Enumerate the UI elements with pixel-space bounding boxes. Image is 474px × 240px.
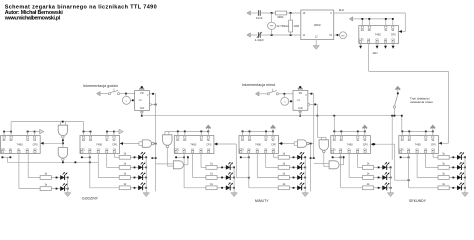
wire bridge (152, 157, 155, 159)
LED (seconds tens bit 2) (378, 162, 390, 170)
svg-text:7490: 7490 (375, 32, 381, 36)
svg-text:-TR: -TR (296, 100, 300, 102)
junction (155, 143, 157, 145)
junction (233, 187, 235, 189)
junction CP1 (400, 156, 402, 158)
wire Q0 down (89, 154, 91, 188)
wire bus down seconds (391, 116, 393, 160)
resistor (seconds units bit 3) (438, 151, 449, 159)
wire to resistor (349, 177, 362, 179)
wire resistor to LED (449, 177, 457, 179)
wire LED to common (143, 166, 146, 168)
wire pin R2 (368, 19, 370, 26)
stub (425, 131, 427, 136)
wire 1Hz down right side (447, 71, 449, 143)
wire (278, 93, 293, 95)
junction (106, 131, 108, 133)
junction (299, 115, 301, 117)
wire AND out (184, 164, 188, 166)
IC U3 hours tens 7490 counter (1, 136, 41, 154)
wire carry to Q0 vert (395, 179, 409, 181)
wire Q1 down (348, 154, 350, 178)
IC U11 seconds tens 7490 counter (331, 136, 371, 154)
svg-text:CP1: CP1 (399, 149, 404, 151)
wire LED to common (143, 156, 146, 158)
junction Q0 (248, 156, 250, 158)
wire top bus B5 (334, 130, 365, 132)
junction (314, 104, 316, 106)
wire to resistor (193, 177, 206, 179)
junction (392, 18, 394, 20)
svg-text:Inkrementacja godzin: Inkrementacja godzin (83, 84, 118, 88)
stub (10, 132, 12, 136)
junction Q0 (340, 156, 342, 158)
wire carry down (394, 144, 396, 180)
wire pin S1 (385, 19, 387, 26)
wire to resistor (273, 156, 278, 158)
LED (minutes tens bit 1) (221, 172, 233, 180)
wire R1-R2 (84, 131, 91, 133)
wire CP1-Q0 link (2, 156, 10, 158)
svg-text:CP0: CP0 (112, 143, 117, 146)
junction (75, 161, 77, 163)
junction (145, 177, 147, 179)
svg-text:CP0: CP0 (33, 143, 38, 146)
divider reset bus (354, 18, 392, 20)
wire gate out down (166, 148, 168, 166)
junction (248, 177, 250, 179)
wire LED to common (302, 166, 305, 168)
IC U2 divider 7490 counter (359, 26, 399, 44)
resistor (minutes tens bit 0) (206, 182, 217, 190)
stub (113, 132, 115, 136)
junction (272, 131, 274, 133)
stub (27, 132, 29, 136)
mode switch lever (395, 94, 398, 105)
wire (65, 177, 67, 179)
stub (164, 131, 166, 134)
junction (464, 177, 466, 179)
wire down to U4 reset (83, 122, 85, 132)
wire resistor to LED (217, 177, 226, 179)
wire LED common down (145, 157, 147, 190)
debounce circle (hours) (122, 96, 130, 104)
junction (425, 131, 427, 133)
wire Q1 down (256, 154, 258, 178)
arrow (B1 set) (38, 129, 44, 134)
stub (200, 131, 202, 136)
junction (290, 100, 292, 102)
ground (4060) (313, 43, 319, 49)
stub (177, 131, 179, 136)
wire Q3 down (272, 154, 274, 158)
wire resistor to LED (289, 187, 297, 189)
stub (106, 132, 108, 136)
wire to resistor (266, 166, 279, 168)
wire gate in A (59, 122, 61, 126)
wire crystal bottom (271, 29, 273, 35)
resistor (minutes units bit 2) (278, 162, 289, 170)
debounce circle (minutes) (281, 97, 289, 105)
resistor (hours units bit 1) (119, 172, 130, 180)
IC U4 hours units 7490 counter (80, 136, 120, 154)
junction (299, 86, 301, 88)
resistor 10M (289, 20, 293, 32)
junction (304, 156, 306, 158)
wire circle to box (289, 100, 293, 102)
wire LED common down (390, 167, 392, 190)
wire resistor to LED (217, 166, 226, 168)
wire box clr down (141, 110, 143, 115)
svg-text:CP1: CP1 (175, 149, 180, 151)
switch S2 (minutes) (267, 89, 278, 95)
VCC (B3) (206, 125, 211, 132)
wire Q2 down (200, 154, 202, 168)
svg-text:CP1: CP1 (359, 39, 364, 41)
resistor (seconds units bit 0) (438, 182, 449, 190)
junction (333, 131, 335, 133)
LED (seconds tens bit 1) (378, 172, 390, 180)
wire reset bus B3 (165, 130, 208, 132)
junction (155, 104, 157, 106)
arrowhead B5 CP0 (371, 143, 374, 146)
junction (385, 18, 387, 20)
wire to test point (334, 34, 340, 36)
AND gate (seconds clock) (329, 161, 339, 169)
junction (141, 115, 143, 117)
junction (340, 131, 342, 133)
resistor (seconds units bit 2) (438, 162, 449, 170)
wire S1-S2 (28, 131, 35, 133)
wire Q0 down (340, 154, 342, 188)
wire (120, 93, 135, 95)
resistor (minutes tens bit 2) (206, 162, 217, 170)
wire Q2 down (106, 154, 108, 168)
svg-text:CP1: CP1 (239, 149, 244, 151)
VCC (B5) (362, 125, 367, 132)
pin arrow (384, 46, 387, 49)
wire LED to common (231, 187, 234, 189)
arrow (B2 set) (117, 129, 123, 134)
NAND U10a (seconds carry) (297, 140, 309, 147)
svg-text:-TR: -TR (138, 100, 142, 102)
wire gate out (154, 143, 156, 145)
svg-text:CP1: CP1 (331, 149, 336, 151)
resistor (seconds tens bit 0) (362, 182, 373, 190)
ground (hours box) (140, 110, 144, 113)
arrowhead B2 CP0 (120, 142, 123, 145)
wire (35, 131, 38, 133)
wire bridge (311, 157, 314, 159)
wire R1-R2 (4, 131, 11, 133)
svg-text:7490: 7490 (17, 142, 23, 146)
stub (321, 137, 323, 140)
svg-text:4-43pF: 4-43pF (255, 38, 264, 42)
stub (325, 137, 327, 140)
wire Q2 down (425, 154, 427, 168)
wire (261, 93, 268, 95)
resistor (hours tens bit 2) (40, 172, 51, 180)
junction (233, 177, 235, 179)
wire stub (392, 44, 394, 48)
stub (168, 131, 170, 134)
svg-text:2Hz: 2Hz (341, 35, 345, 37)
junction (390, 177, 392, 179)
junction (337, 34, 339, 36)
NAND U7c (hours carry) (142, 140, 154, 147)
svg-text:330k: 330k (277, 15, 284, 19)
wire Q3 down (432, 154, 434, 158)
ground (divider reset bus) (349, 17, 354, 21)
svg-text:ustawienia czasu: ustawienia czasu (410, 100, 433, 104)
wire stub (376, 44, 378, 48)
wire down to CP0 (404, 13, 406, 32)
wire resistor to LED (289, 156, 297, 158)
junction (464, 167, 466, 169)
resistor (minutes units bit 3) (278, 151, 289, 159)
wire to resistor (249, 187, 278, 189)
junction (333, 115, 335, 117)
svg-text:CP0: CP0 (271, 143, 276, 146)
junction (83, 131, 85, 133)
LED (minutes tens bit 2) (221, 162, 233, 170)
wire minutes inc down (313, 94, 315, 158)
LED (seconds units bit 1) (452, 172, 464, 180)
wire to resistor (98, 177, 119, 179)
wire gate in B (64, 122, 66, 126)
wire to AND input (314, 163, 329, 165)
wire B5 CP0 (370, 143, 394, 145)
stub (408, 131, 410, 136)
wire LED common down (233, 167, 235, 190)
wire carry down (235, 144, 237, 178)
wire in B (139, 144, 142, 146)
svg-text:MINUTY: MINUTY (255, 199, 269, 203)
wire Q1 down (416, 154, 418, 178)
stub (333, 131, 335, 136)
wire resistor to LED (449, 156, 457, 158)
resistor (hours units bit 0) (119, 182, 130, 190)
resistor (hours units bit 3) (119, 151, 130, 159)
wire Q2 down (357, 154, 359, 168)
junction (187, 156, 189, 158)
LED (minutes units bit 0) (293, 183, 305, 191)
svg-text:7490: 7490 (255, 142, 261, 146)
wire LED to common (231, 166, 234, 168)
wire CP1-Q0 link (401, 156, 409, 158)
stub (432, 131, 434, 136)
IC U6 minutes units 7490 counter (239, 136, 279, 154)
junction (90, 131, 92, 133)
junction (67, 188, 69, 190)
wire resistor to LED (449, 166, 457, 168)
wire split (293, 142, 295, 146)
wire circle to box (130, 99, 134, 101)
junction (145, 187, 147, 189)
junction (432, 131, 434, 133)
svg-text:7490: 7490 (415, 142, 421, 146)
junction (390, 167, 392, 169)
wire LED to common (302, 156, 305, 158)
svg-text:CP0: CP0 (206, 143, 211, 146)
junction (242, 131, 244, 133)
junction (364, 131, 366, 133)
junction (216, 143, 218, 145)
svg-text:CP0: CP0 (363, 143, 368, 146)
arrowhead CP0 (399, 30, 402, 33)
stub (207, 131, 209, 136)
stub (242, 131, 244, 136)
stub (357, 131, 359, 136)
IC U12 seconds units 7490 counter (399, 136, 439, 154)
svg-text:10nF: 10nF (256, 16, 263, 20)
junction (62, 161, 64, 163)
frame wire hours reset (11, 121, 83, 123)
wire B2 CP0 (120, 143, 139, 145)
junction (464, 156, 466, 158)
wire gate1 to gate2 (62, 139, 64, 148)
wire CP1-Q0 link (241, 156, 249, 158)
NAND U7a (hours reset) (58, 125, 67, 138)
wire to resistor (107, 166, 120, 168)
wire pin R1 (361, 19, 363, 26)
monostable U8 (hours) (135, 91, 152, 111)
ground (hours tens LEDs) (65, 191, 71, 197)
wire (252, 34, 257, 36)
stub (340, 131, 342, 136)
wire to AND input (167, 165, 173, 167)
LED (seconds tens bit 0) (378, 183, 390, 191)
arrowhead B1 CP0 (41, 142, 44, 145)
wire LED to common (462, 156, 465, 158)
svg-text:Inkrementacja minut: Inkrementacja minut (242, 83, 275, 87)
junction (2, 156, 4, 158)
mode switch terminal (393, 106, 395, 108)
wire to resistor (19, 188, 40, 190)
ground (top cap) (247, 11, 252, 15)
stub (249, 131, 251, 136)
junction (304, 167, 306, 169)
svg-text:CP1: CP1 (1, 149, 6, 151)
wire (51, 188, 60, 190)
LED (seconds units bit 3) (452, 152, 464, 160)
wire CP1-Q0 link (82, 156, 90, 158)
ground (bottom cap) (247, 33, 252, 37)
resistor (seconds units bit 1) (438, 172, 449, 180)
NAND U7b (58, 148, 67, 161)
VCC (mode switch) (395, 86, 400, 93)
wire LED to common (143, 177, 146, 179)
junction (177, 131, 179, 133)
node (10M bottom) (290, 34, 292, 36)
wire Q1 down (18, 154, 20, 189)
svg-text:CLR: CLR (298, 108, 303, 110)
svg-text:PR: PR (299, 93, 303, 95)
junction (401, 115, 403, 117)
stub (364, 131, 366, 136)
junction Q0 (89, 156, 91, 158)
junction (3, 131, 5, 133)
junction (281, 143, 283, 145)
junction (391, 115, 393, 117)
junction (311, 93, 313, 95)
resistor (seconds tens bit 2) (362, 162, 373, 170)
stub (34, 132, 36, 136)
stub (3, 132, 5, 136)
junction (408, 179, 410, 181)
main set bus (142, 115, 402, 117)
wire pin S2 (392, 19, 394, 26)
wire to resistor (433, 156, 438, 158)
LED (hours tens bit 1) (56, 183, 68, 191)
wire LED to common (387, 187, 390, 189)
wire -Q out (151, 104, 155, 106)
stub (184, 131, 186, 136)
junction (184, 131, 186, 133)
wire LED to common (231, 177, 234, 179)
wire LED common (67, 178, 69, 191)
wire R up to frame (10, 122, 12, 132)
ground (minutes tens LEDs) (231, 191, 237, 197)
LED (hours units bit 2) (134, 162, 146, 170)
junction (152, 157, 154, 159)
wire bus down to B6 reset (401, 116, 403, 132)
wire up to Q0 pin (343, 156, 345, 165)
arrowhead B3 CP0 (214, 143, 217, 146)
VCC (B6) (430, 125, 435, 132)
ground (minutes units LEDs) (302, 191, 308, 197)
wire resistor to LED (130, 177, 138, 179)
wire to AND input (324, 165, 329, 167)
junction CP1 (175, 156, 177, 158)
wire stub (385, 44, 387, 48)
svg-text:PR: PR (140, 93, 144, 95)
IC U5 minutes tens 7490 counter (174, 136, 214, 154)
svg-text:Q: Q (147, 95, 149, 97)
stub (272, 131, 274, 136)
junction (304, 187, 306, 189)
junction (141, 86, 143, 88)
wire LED to common (462, 187, 465, 189)
LED (minutes units bit 3) (293, 152, 305, 160)
junction (145, 167, 147, 169)
svg-text:10M: 10M (293, 24, 299, 28)
wire 1Hz horizontal (369, 70, 449, 72)
wire -Q out (310, 103, 318, 105)
wire to resistor (358, 166, 363, 168)
wire split (138, 142, 140, 146)
wire gate out (309, 143, 314, 145)
LED (minutes units bit 1) (293, 172, 305, 180)
svg-text:CP0: CP0 (391, 33, 396, 36)
LED (hours units bit 1) (134, 172, 146, 180)
junction (368, 18, 370, 20)
wire switch down to bus (393, 108, 395, 116)
wire LED to common (387, 177, 390, 179)
wire to 4060 pin11 (261, 34, 301, 36)
junction (10, 156, 12, 158)
wire LED common down (304, 157, 306, 190)
wire in A (139, 141, 142, 143)
junction Q0 (183, 156, 185, 158)
wire resistor to LED (289, 177, 297, 179)
wire to resistor (426, 166, 439, 168)
arrowhead B6 CP0 (439, 142, 442, 145)
LED (seconds units bit 2) (452, 162, 464, 170)
wire 10M top (290, 13, 292, 20)
wire Q3 down (113, 154, 115, 158)
wire resistor to LED (217, 187, 226, 189)
